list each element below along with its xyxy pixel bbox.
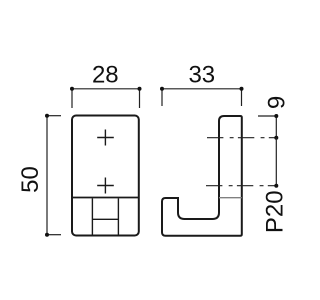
front view divider line (72, 197, 139, 199)
center line 1 (dash-dot) (207, 137, 276, 139)
svg-text:9: 9 (264, 96, 291, 109)
front view hook inner bottom edge (92, 218, 118, 220)
dimension 33: line, dots, extensions (162, 89, 242, 106)
svg-text:P20: P20 (262, 190, 289, 233)
dimension 50: line, dots, extensions (47, 116, 61, 235)
center mark cross 1 (97, 130, 114, 146)
front view outline (72, 116, 139, 236)
front view hook left edge (91, 198, 93, 234)
front view hook right edge (117, 198, 119, 234)
center mark cross 2 (97, 178, 114, 194)
side view hidden front-plate edge (gray) (219, 197, 242, 199)
svg-text:50: 50 (17, 166, 44, 193)
dimension 9: extension, line, dots (258, 116, 276, 138)
svg-text:33: 33 (188, 62, 215, 89)
dimension P20: line, dots (275, 138, 277, 186)
center line 2 (dash-dot) (206, 185, 276, 187)
side view outline (162, 116, 242, 236)
dimension 28: line, dots, extensions (72, 89, 140, 108)
svg-text:28: 28 (92, 62, 119, 89)
